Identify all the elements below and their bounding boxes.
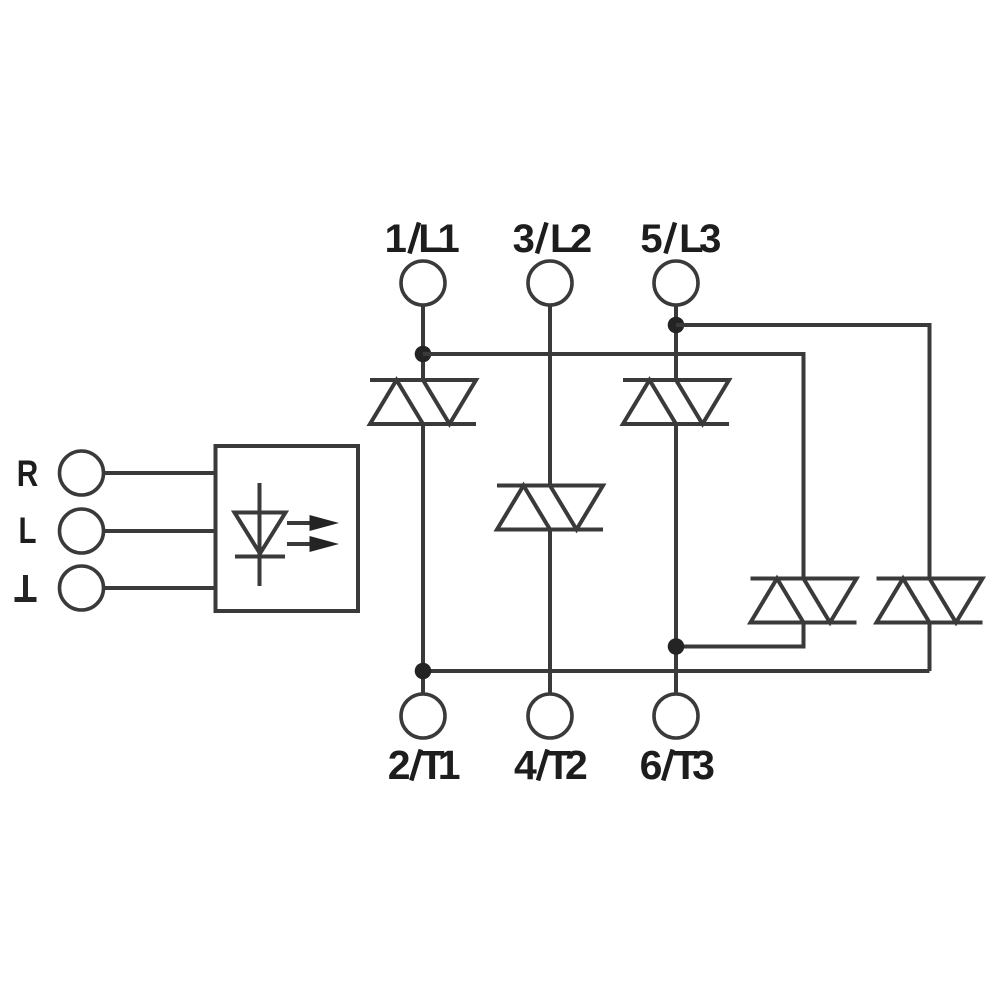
terminal label 2/T1 xyxy=(388,742,461,788)
terminal label 5/L3 xyxy=(640,217,721,261)
svg-text:2: 2 xyxy=(388,742,411,788)
node junction L3-bus1 xyxy=(668,317,685,334)
wire Q5 bottom to bus4 xyxy=(928,623,932,672)
terminal circle 5/L3 xyxy=(654,261,698,305)
wire L2 vertical upper xyxy=(548,305,552,486)
terminal circle ground xyxy=(60,566,104,610)
LED D1 anode lead xyxy=(258,483,262,586)
terminal circle 3/L2 xyxy=(528,261,572,305)
wire R to control box xyxy=(104,471,216,475)
svg-text:1: 1 xyxy=(385,217,407,261)
svg-text:3: 3 xyxy=(692,742,715,788)
terminal circle 6/T3 xyxy=(654,694,698,738)
svg-text:R: R xyxy=(17,453,39,494)
svg-text:3: 3 xyxy=(513,217,535,261)
LED light arrow 2 xyxy=(287,536,339,552)
terminal circle 1/L1 xyxy=(401,261,445,305)
triac Q2 (L3 leg) xyxy=(623,380,729,424)
triac Q3 (L2 leg) xyxy=(497,486,603,530)
wire bus4 T1 across bottom xyxy=(423,669,930,673)
triac Q5 (reversing right) xyxy=(877,579,983,623)
node junction L1-bus2 xyxy=(415,346,432,363)
terminal label 3/L2 xyxy=(513,217,593,261)
terminal label 6/T3 xyxy=(640,742,715,788)
wire L2 vertical lower xyxy=(548,530,552,695)
svg-text:1: 1 xyxy=(437,217,459,261)
wire L1 top stub xyxy=(421,305,425,380)
wire L to control box xyxy=(104,529,216,533)
wire L3 top stub xyxy=(674,305,678,380)
svg-text:5: 5 xyxy=(640,217,662,261)
wire bus2 L1 to mid drop xyxy=(423,354,804,579)
svg-text:6: 6 xyxy=(640,742,663,788)
control box U1 xyxy=(216,446,359,611)
control input label ground xyxy=(15,575,37,600)
svg-text:4: 4 xyxy=(514,742,537,788)
control input label L xyxy=(19,510,37,551)
terminal circle 4/T2 xyxy=(528,694,572,738)
control input label R xyxy=(17,453,39,494)
svg-text:1: 1 xyxy=(438,742,461,788)
wire Q4 bottom to T3 node xyxy=(676,623,804,647)
wire L1 vertical lower xyxy=(421,424,425,694)
LED light arrow 1 xyxy=(287,515,339,531)
LED D1 triangle xyxy=(235,513,286,554)
triac Q1 (L1 leg) xyxy=(370,380,476,424)
terminal circle 2/T1 xyxy=(401,694,445,738)
svg-text:2: 2 xyxy=(570,217,592,261)
triac Q4 (reversing left) xyxy=(751,579,857,623)
terminal label 4/T2 xyxy=(514,742,588,788)
svg-text:2: 2 xyxy=(565,742,588,788)
svg-text:3: 3 xyxy=(699,217,721,261)
wire bus1 L3 to right drop xyxy=(676,325,930,579)
terminal circle L xyxy=(60,509,104,553)
wire L3 vertical lower xyxy=(674,424,678,694)
svg-text:L: L xyxy=(19,510,37,551)
terminal circle R xyxy=(60,451,104,495)
node junction T1-bus4 xyxy=(415,663,432,680)
wire ground to control box xyxy=(104,586,216,590)
terminal label 1/L1 xyxy=(385,217,460,261)
LED D1 cathode bar xyxy=(235,555,285,559)
node junction T3-bus3 xyxy=(668,638,685,655)
